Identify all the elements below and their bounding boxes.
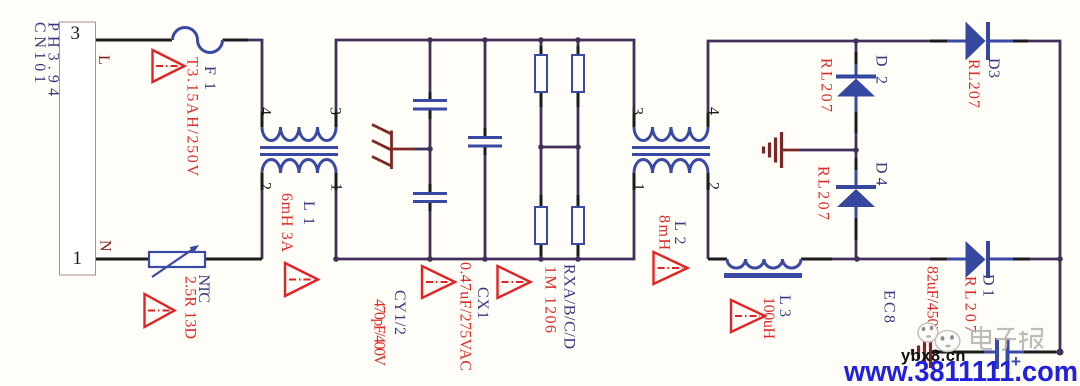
svg-text:D3: D3 bbox=[985, 58, 1002, 78]
svg-text:L1: L1 bbox=[300, 201, 317, 225]
svg-text:EC8: EC8 bbox=[881, 290, 898, 323]
svg-text:2: 2 bbox=[705, 182, 722, 190]
svg-text:100uH: 100uH bbox=[760, 297, 777, 339]
svg-text:L2: L2 bbox=[671, 221, 688, 245]
svg-text:D4: D4 bbox=[873, 162, 890, 186]
svg-text:1: 1 bbox=[73, 248, 83, 269]
svg-text:2: 2 bbox=[257, 182, 274, 190]
svg-text:RL207: RL207 bbox=[965, 59, 982, 108]
svg-text:F1: F1 bbox=[201, 66, 218, 90]
svg-text:T3.15AH/250V: T3.15AH/250V bbox=[184, 57, 201, 176]
svg-text:8mH: 8mH bbox=[656, 215, 673, 250]
svg-text:3: 3 bbox=[71, 23, 81, 44]
svg-text:2.5R 13D: 2.5R 13D bbox=[182, 276, 199, 339]
svg-text:0.47uF/275VAC: 0.47uF/275VAC bbox=[457, 262, 474, 371]
svg-text:4: 4 bbox=[257, 107, 274, 115]
svg-text:6mH 3A: 6mH 3A bbox=[278, 193, 295, 252]
svg-text:1: 1 bbox=[328, 183, 345, 191]
svg-text:RL207: RL207 bbox=[962, 276, 979, 333]
svg-text:D2: D2 bbox=[873, 55, 890, 84]
svg-text:1M 1206: 1M 1206 bbox=[542, 266, 559, 333]
svg-text:3: 3 bbox=[327, 107, 344, 115]
svg-text:4: 4 bbox=[705, 107, 722, 115]
svg-text:RL207: RL207 bbox=[815, 166, 832, 220]
svg-text:470pF/400V: 470pF/400V bbox=[371, 299, 388, 366]
svg-text:N: N bbox=[97, 240, 114, 252]
svg-text:3: 3 bbox=[629, 107, 646, 115]
svg-text:1: 1 bbox=[630, 183, 647, 191]
svg-text:D1: D1 bbox=[980, 274, 997, 297]
svg-text:CY1/2: CY1/2 bbox=[391, 290, 408, 335]
svg-text:L: L bbox=[95, 55, 112, 65]
svg-text:RL207: RL207 bbox=[818, 58, 835, 112]
svg-text:CX1: CX1 bbox=[474, 287, 491, 319]
svg-text:PH3.94: PH3.94 bbox=[45, 22, 62, 96]
svg-text:www.3811111.com: www.3811111.com bbox=[843, 356, 1078, 386]
svg-text:L3: L3 bbox=[776, 295, 793, 317]
svg-text:RXA/B/C/D: RXA/B/C/D bbox=[561, 264, 578, 349]
